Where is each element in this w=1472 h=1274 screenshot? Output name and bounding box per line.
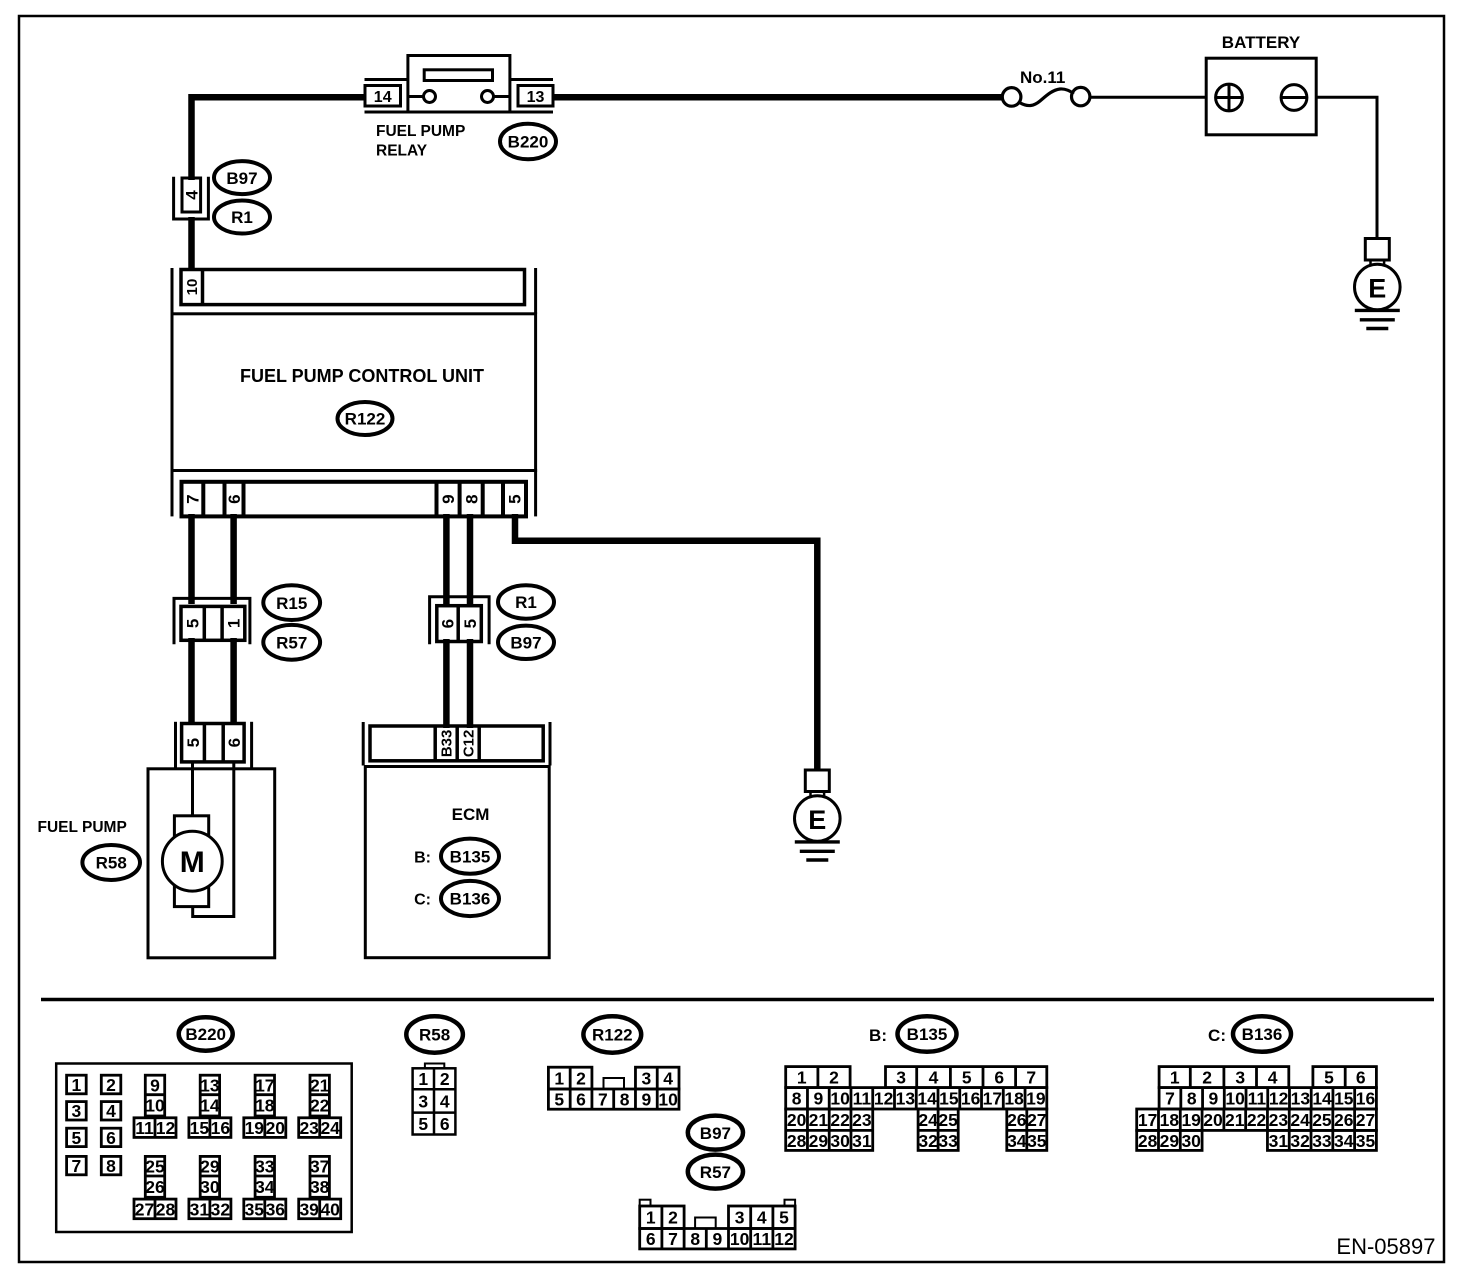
- svg-text:20: 20: [787, 1110, 807, 1130]
- svg-text:6: 6: [646, 1229, 656, 1249]
- svg-text:R58: R58: [96, 854, 127, 873]
- svg-text:C:: C:: [1208, 1026, 1226, 1045]
- svg-text:E: E: [808, 805, 826, 835]
- svg-text:7: 7: [184, 494, 203, 503]
- svg-text:33: 33: [938, 1131, 958, 1151]
- svg-text:No.11: No.11: [1020, 68, 1065, 87]
- svg-text:1: 1: [797, 1067, 807, 1087]
- svg-text:27: 27: [1027, 1110, 1046, 1130]
- svg-text:FUEL PUMP: FUEL PUMP: [38, 819, 127, 836]
- svg-text:FUEL PUMP CONTROL UNIT: FUEL PUMP CONTROL UNIT: [240, 366, 484, 386]
- svg-text:22: 22: [830, 1110, 850, 1130]
- svg-text:15: 15: [939, 1089, 959, 1109]
- svg-text:11: 11: [135, 1118, 154, 1138]
- svg-text:7: 7: [598, 1089, 608, 1109]
- svg-text:6: 6: [576, 1089, 586, 1109]
- svg-text:13: 13: [527, 89, 545, 106]
- svg-text:23: 23: [852, 1110, 872, 1130]
- svg-text:5: 5: [184, 619, 203, 628]
- svg-text:2: 2: [1202, 1067, 1212, 1087]
- svg-text:7: 7: [1165, 1089, 1175, 1109]
- svg-text:6: 6: [1356, 1067, 1366, 1087]
- svg-text:28: 28: [156, 1199, 176, 1219]
- svg-text:B:: B:: [414, 850, 431, 867]
- svg-text:4: 4: [1268, 1067, 1278, 1087]
- svg-text:9: 9: [713, 1229, 723, 1249]
- svg-text:4: 4: [663, 1068, 673, 1088]
- svg-text:37: 37: [310, 1157, 329, 1177]
- svg-text:26: 26: [1334, 1110, 1354, 1130]
- svg-text:27: 27: [135, 1199, 154, 1219]
- svg-text:E: E: [1368, 273, 1386, 303]
- svg-text:18: 18: [255, 1096, 275, 1116]
- svg-text:1: 1: [1170, 1067, 1180, 1087]
- svg-text:27: 27: [1356, 1110, 1375, 1130]
- svg-text:M: M: [180, 846, 205, 879]
- svg-text:35: 35: [1027, 1131, 1047, 1151]
- svg-text:16: 16: [1356, 1089, 1376, 1109]
- svg-text:2: 2: [106, 1075, 116, 1095]
- svg-text:9: 9: [1209, 1089, 1219, 1109]
- svg-text:25: 25: [1312, 1110, 1332, 1130]
- svg-text:2: 2: [668, 1208, 678, 1228]
- svg-text:28: 28: [787, 1131, 807, 1151]
- svg-text:12: 12: [874, 1089, 894, 1109]
- svg-text:33: 33: [1312, 1131, 1332, 1151]
- svg-text:13: 13: [1291, 1089, 1311, 1109]
- svg-text:26: 26: [1007, 1110, 1027, 1130]
- svg-text:6: 6: [440, 1114, 450, 1134]
- svg-text:6: 6: [106, 1128, 116, 1148]
- svg-text:35: 35: [245, 1199, 265, 1219]
- svg-text:R57: R57: [700, 1163, 731, 1182]
- svg-text:10: 10: [145, 1096, 165, 1116]
- svg-text:34: 34: [1007, 1131, 1027, 1151]
- svg-text:6: 6: [439, 619, 458, 628]
- svg-text:2: 2: [440, 1069, 450, 1089]
- svg-text:4: 4: [929, 1067, 939, 1087]
- svg-text:C12: C12: [461, 730, 478, 758]
- svg-text:8: 8: [462, 494, 481, 503]
- svg-text:3: 3: [1235, 1067, 1245, 1087]
- svg-text:1: 1: [418, 1069, 428, 1089]
- svg-text:B33: B33: [439, 730, 456, 758]
- svg-text:16: 16: [961, 1089, 981, 1109]
- svg-text:B97: B97: [700, 1124, 731, 1143]
- svg-text:33: 33: [255, 1157, 275, 1177]
- svg-text:5: 5: [779, 1208, 789, 1228]
- svg-text:B135: B135: [450, 847, 491, 866]
- svg-text:9: 9: [813, 1089, 823, 1109]
- svg-text:9: 9: [641, 1089, 651, 1109]
- svg-text:22: 22: [1247, 1110, 1267, 1130]
- svg-text:11: 11: [1248, 1089, 1267, 1109]
- svg-text:19: 19: [1026, 1089, 1046, 1109]
- svg-text:RELAY: RELAY: [376, 142, 428, 159]
- svg-text:B136: B136: [1242, 1025, 1283, 1044]
- svg-text:36: 36: [266, 1199, 286, 1219]
- svg-text:30: 30: [200, 1177, 220, 1197]
- svg-text:B97: B97: [510, 634, 541, 653]
- svg-text:18: 18: [1004, 1089, 1024, 1109]
- svg-text:15: 15: [190, 1118, 210, 1138]
- svg-text:21: 21: [809, 1110, 829, 1130]
- svg-text:17: 17: [1138, 1110, 1157, 1130]
- svg-text:5: 5: [418, 1114, 428, 1134]
- svg-text:R57: R57: [276, 634, 307, 653]
- svg-text:7: 7: [72, 1156, 82, 1176]
- svg-text:R122: R122: [345, 410, 386, 429]
- svg-text:40: 40: [320, 1199, 340, 1219]
- svg-text:10: 10: [658, 1089, 678, 1109]
- svg-text:R58: R58: [419, 1026, 450, 1045]
- svg-text:28: 28: [1138, 1131, 1158, 1151]
- svg-text:R122: R122: [592, 1026, 633, 1045]
- svg-text:5: 5: [554, 1089, 564, 1109]
- svg-text:5: 5: [184, 738, 203, 747]
- svg-text:31: 31: [852, 1131, 872, 1151]
- svg-text:31: 31: [190, 1199, 210, 1219]
- svg-text:38: 38: [310, 1177, 330, 1197]
- svg-text:30: 30: [830, 1131, 850, 1151]
- svg-text:30: 30: [1181, 1131, 1201, 1151]
- svg-text:1: 1: [554, 1068, 564, 1088]
- svg-text:24: 24: [1290, 1110, 1310, 1130]
- svg-text:13: 13: [896, 1089, 916, 1109]
- svg-text:5: 5: [1324, 1067, 1334, 1087]
- svg-text:23: 23: [299, 1118, 319, 1138]
- svg-text:1: 1: [225, 619, 244, 628]
- svg-text:5: 5: [962, 1067, 972, 1087]
- svg-text:3: 3: [418, 1091, 428, 1111]
- svg-text:14: 14: [200, 1096, 220, 1116]
- svg-text:1: 1: [646, 1208, 656, 1228]
- svg-text:17: 17: [983, 1089, 1002, 1109]
- svg-text:9: 9: [439, 494, 458, 503]
- svg-text:21: 21: [1225, 1110, 1245, 1130]
- svg-text:5: 5: [72, 1128, 82, 1148]
- svg-text:18: 18: [1160, 1110, 1180, 1130]
- svg-text:14: 14: [917, 1089, 937, 1109]
- svg-text:9: 9: [150, 1075, 160, 1095]
- svg-text:R1: R1: [515, 593, 537, 612]
- svg-text:11: 11: [853, 1089, 872, 1109]
- svg-text:B136: B136: [450, 890, 491, 909]
- svg-text:4: 4: [757, 1208, 767, 1228]
- svg-text:4: 4: [183, 190, 202, 200]
- svg-text:R1: R1: [231, 208, 253, 227]
- svg-text:1: 1: [72, 1075, 82, 1095]
- svg-text:R15: R15: [276, 594, 307, 613]
- svg-text:3: 3: [896, 1067, 906, 1087]
- svg-text:BATTERY: BATTERY: [1222, 33, 1301, 52]
- svg-text:29: 29: [200, 1157, 220, 1177]
- svg-text:2: 2: [829, 1067, 839, 1087]
- svg-text:12: 12: [156, 1118, 176, 1138]
- svg-text:8: 8: [620, 1089, 630, 1109]
- svg-text:7: 7: [668, 1229, 678, 1249]
- svg-text:3: 3: [641, 1068, 651, 1088]
- svg-text:10: 10: [1225, 1089, 1245, 1109]
- svg-text:3: 3: [735, 1208, 745, 1228]
- svg-text:22: 22: [310, 1096, 330, 1116]
- svg-text:C:: C:: [414, 892, 431, 909]
- svg-text:34: 34: [1334, 1131, 1354, 1151]
- svg-text:14: 14: [374, 89, 392, 106]
- svg-text:8: 8: [1187, 1089, 1197, 1109]
- svg-text:15: 15: [1334, 1089, 1354, 1109]
- svg-text:32: 32: [1290, 1131, 1310, 1151]
- svg-text:12: 12: [774, 1229, 794, 1249]
- svg-text:39: 39: [299, 1199, 319, 1219]
- svg-text:20: 20: [266, 1118, 286, 1138]
- svg-text:21: 21: [310, 1075, 330, 1095]
- svg-text:7: 7: [1026, 1067, 1036, 1087]
- svg-text:19: 19: [245, 1118, 265, 1138]
- svg-text:23: 23: [1269, 1110, 1289, 1130]
- svg-text:10: 10: [830, 1089, 850, 1109]
- svg-text:B135: B135: [907, 1025, 948, 1044]
- svg-text:34: 34: [255, 1177, 275, 1197]
- svg-text:10: 10: [730, 1229, 750, 1249]
- svg-text:2: 2: [576, 1068, 586, 1088]
- svg-text:29: 29: [809, 1131, 829, 1151]
- svg-text:B220: B220: [185, 1025, 226, 1044]
- svg-text:4: 4: [440, 1091, 450, 1111]
- svg-text:B97: B97: [226, 169, 257, 188]
- svg-text:FUEL PUMP: FUEL PUMP: [376, 123, 465, 140]
- svg-text:24: 24: [320, 1118, 340, 1138]
- svg-text:ECM: ECM: [452, 805, 490, 824]
- svg-text:5: 5: [506, 494, 525, 503]
- svg-text:6: 6: [994, 1067, 1004, 1087]
- svg-text:19: 19: [1181, 1110, 1201, 1130]
- svg-text:26: 26: [145, 1177, 165, 1197]
- svg-text:24: 24: [918, 1110, 938, 1130]
- svg-text:17: 17: [255, 1075, 274, 1095]
- svg-text:3: 3: [72, 1101, 82, 1121]
- svg-text:6: 6: [225, 738, 244, 747]
- svg-text:29: 29: [1160, 1131, 1180, 1151]
- svg-text:25: 25: [145, 1157, 165, 1177]
- svg-text:20: 20: [1203, 1110, 1223, 1130]
- svg-text:12: 12: [1269, 1089, 1289, 1109]
- svg-text:B220: B220: [508, 133, 549, 152]
- svg-text:8: 8: [106, 1156, 116, 1176]
- svg-text:EN-05897: EN-05897: [1336, 1234, 1435, 1259]
- svg-text:14: 14: [1312, 1089, 1332, 1109]
- svg-text:32: 32: [211, 1199, 231, 1219]
- svg-text:13: 13: [200, 1075, 220, 1095]
- svg-text:16: 16: [211, 1118, 231, 1138]
- svg-text:32: 32: [918, 1131, 938, 1151]
- svg-text:6: 6: [225, 494, 244, 503]
- svg-text:10: 10: [184, 279, 201, 296]
- svg-text:31: 31: [1269, 1131, 1289, 1151]
- svg-text:8: 8: [792, 1089, 802, 1109]
- svg-text:8: 8: [690, 1229, 700, 1249]
- svg-text:35: 35: [1356, 1131, 1376, 1151]
- svg-text:25: 25: [938, 1110, 958, 1130]
- svg-text:5: 5: [461, 619, 480, 628]
- svg-text:B:: B:: [869, 1026, 887, 1045]
- svg-text:4: 4: [106, 1101, 116, 1121]
- svg-text:11: 11: [753, 1229, 772, 1249]
